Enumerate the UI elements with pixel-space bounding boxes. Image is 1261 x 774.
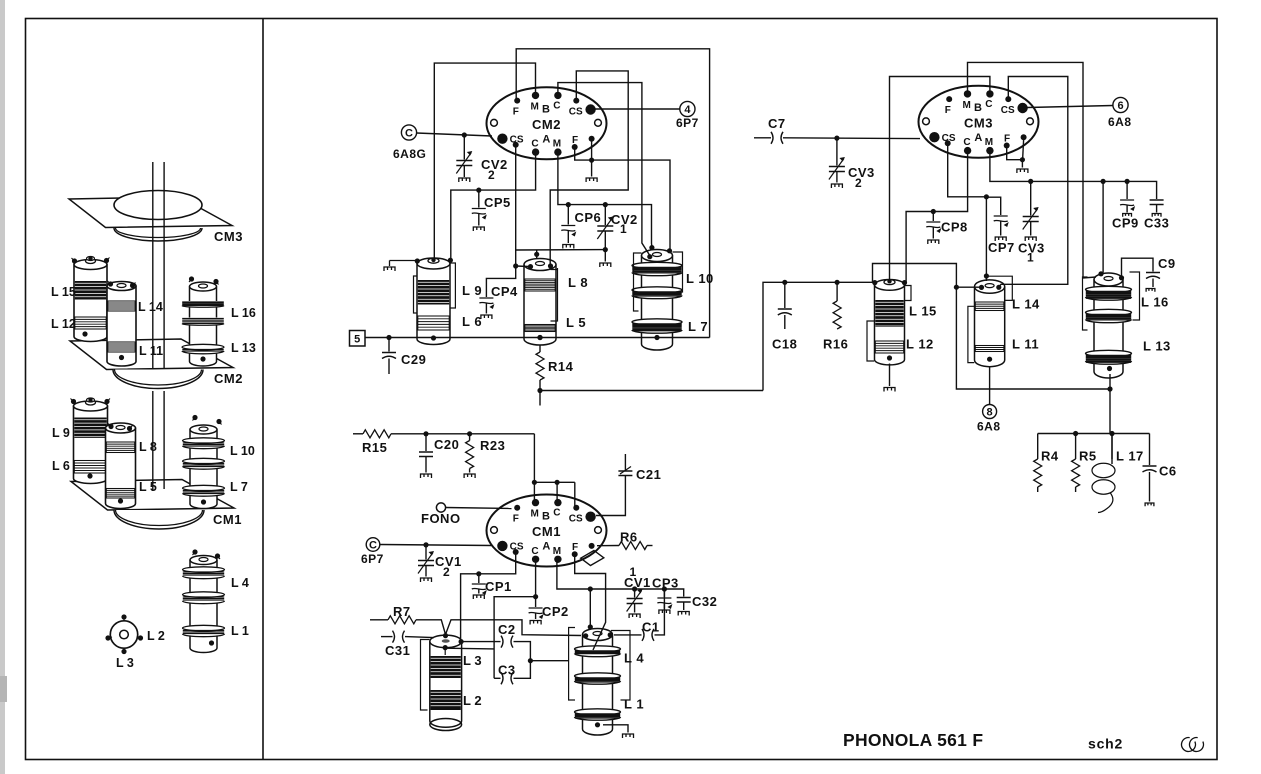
- svg-text:CM1: CM1: [532, 524, 561, 539]
- svg-text:CM1: CM1: [213, 512, 242, 527]
- svg-text:CP3: CP3: [652, 576, 679, 591]
- svg-text:F: F: [572, 135, 578, 146]
- svg-text:C32: C32: [692, 594, 717, 609]
- svg-text:L 15: L 15: [51, 285, 76, 299]
- svg-text:L 12: L 12: [906, 337, 934, 352]
- svg-text:L 9: L 9: [462, 283, 482, 298]
- svg-text:1: 1: [630, 565, 637, 579]
- svg-text:4: 4: [684, 104, 691, 116]
- svg-text:L 15: L 15: [909, 304, 937, 319]
- svg-text:L 13: L 13: [1143, 339, 1171, 354]
- svg-text:A: A: [974, 132, 982, 144]
- svg-text:C18: C18: [772, 337, 797, 352]
- svg-text:C33: C33: [1144, 216, 1169, 231]
- svg-text:L 5: L 5: [566, 315, 586, 330]
- svg-text:F: F: [513, 514, 519, 525]
- svg-text:CV1: CV1: [624, 575, 651, 590]
- svg-text:CS: CS: [942, 133, 956, 144]
- svg-text:C: C: [963, 137, 970, 148]
- svg-text:F: F: [513, 106, 519, 117]
- svg-text:CS: CS: [569, 514, 583, 525]
- svg-text:CM2: CM2: [532, 117, 561, 132]
- svg-text:L 8: L 8: [568, 275, 588, 290]
- svg-text:L 17: L 17: [1116, 449, 1144, 464]
- svg-text:L 4: L 4: [624, 651, 644, 666]
- svg-text:A: A: [542, 134, 550, 146]
- svg-text:L 4: L 4: [231, 576, 249, 590]
- svg-text:F: F: [945, 105, 951, 116]
- svg-text:C: C: [985, 99, 992, 110]
- svg-text:CS: CS: [1001, 105, 1015, 116]
- svg-text:5: 5: [354, 333, 360, 345]
- svg-text:M: M: [963, 100, 971, 111]
- svg-text:L 10: L 10: [230, 444, 255, 458]
- svg-text:C: C: [369, 539, 377, 551]
- svg-text:M: M: [531, 101, 539, 112]
- svg-text:B: B: [542, 511, 550, 523]
- svg-text:CS: CS: [510, 135, 524, 146]
- svg-text:CP5: CP5: [484, 195, 511, 210]
- svg-text:CP6: CP6: [575, 210, 602, 225]
- svg-text:CP2: CP2: [542, 604, 569, 619]
- svg-text:M: M: [985, 137, 993, 148]
- svg-text:L 2: L 2: [147, 629, 165, 643]
- svg-text:L 1: L 1: [231, 624, 249, 638]
- svg-text:R16: R16: [823, 337, 848, 352]
- svg-text:6P7: 6P7: [361, 552, 384, 566]
- svg-text:C: C: [531, 139, 538, 150]
- svg-text:C: C: [405, 127, 413, 139]
- svg-text:sch2: sch2: [1088, 736, 1123, 752]
- svg-text:B: B: [542, 104, 550, 116]
- svg-text:CS: CS: [510, 542, 524, 553]
- svg-text:L 16: L 16: [1141, 295, 1169, 310]
- svg-text:CP8: CP8: [941, 220, 968, 235]
- svg-text:L 11: L 11: [139, 344, 163, 358]
- svg-text:R23: R23: [480, 438, 505, 453]
- svg-text:B: B: [974, 102, 982, 114]
- svg-text:L 7: L 7: [688, 319, 708, 334]
- svg-text:2: 2: [443, 565, 450, 579]
- svg-text:R14: R14: [548, 359, 574, 374]
- svg-text:L 8: L 8: [139, 440, 157, 454]
- svg-text:R5: R5: [1079, 449, 1097, 464]
- svg-text:CP1: CP1: [485, 579, 512, 594]
- svg-text:C29: C29: [401, 352, 426, 367]
- svg-text:L 2: L 2: [463, 693, 482, 708]
- svg-text:F: F: [572, 542, 578, 553]
- svg-text:CP9: CP9: [1112, 216, 1139, 231]
- svg-text:2: 2: [488, 168, 495, 182]
- svg-text:C: C: [553, 100, 560, 111]
- svg-text:6A8G: 6A8G: [393, 147, 426, 161]
- svg-text:C20: C20: [434, 437, 459, 452]
- svg-text:C2: C2: [498, 622, 516, 637]
- svg-text:C: C: [531, 546, 538, 557]
- svg-text:CM3: CM3: [214, 229, 243, 244]
- svg-text:C21: C21: [636, 467, 661, 482]
- svg-text:L 7: L 7: [230, 480, 248, 494]
- svg-text:R7: R7: [393, 604, 411, 619]
- svg-text:PHONOLA 561 F: PHONOLA 561 F: [843, 730, 983, 750]
- svg-text:C: C: [553, 508, 560, 519]
- svg-text:L 16: L 16: [231, 306, 256, 320]
- svg-text:CM2: CM2: [214, 371, 243, 386]
- svg-text:1: 1: [620, 222, 627, 236]
- svg-text:F: F: [1004, 133, 1010, 144]
- svg-text:L 11: L 11: [1012, 337, 1039, 352]
- svg-text:6A8: 6A8: [977, 420, 1001, 434]
- svg-text:L 3: L 3: [116, 656, 134, 670]
- svg-text:L 6: L 6: [462, 314, 482, 329]
- svg-text:L 10: L 10: [686, 271, 714, 286]
- svg-text:L 12: L 12: [51, 317, 76, 331]
- svg-text:FONO: FONO: [421, 511, 461, 526]
- svg-text:C6: C6: [1159, 464, 1177, 479]
- svg-text:C9: C9: [1158, 256, 1176, 271]
- svg-text:L 3: L 3: [463, 653, 482, 668]
- svg-text:M: M: [531, 509, 539, 520]
- svg-text:R15: R15: [362, 440, 387, 455]
- svg-text:C1: C1: [642, 620, 660, 635]
- svg-text:6: 6: [1117, 100, 1123, 112]
- svg-text:L 13: L 13: [231, 341, 256, 355]
- svg-text:C31: C31: [385, 643, 410, 658]
- svg-text:CS: CS: [569, 106, 583, 117]
- svg-text:C7: C7: [768, 116, 786, 131]
- svg-text:8: 8: [987, 406, 993, 418]
- svg-text:CP7: CP7: [988, 240, 1015, 255]
- svg-text:1: 1: [1027, 251, 1034, 265]
- svg-text:R6: R6: [620, 530, 638, 545]
- svg-text:CP4: CP4: [491, 284, 518, 299]
- svg-text:R4: R4: [1041, 449, 1059, 464]
- svg-text:A: A: [542, 541, 550, 553]
- svg-text:L 14: L 14: [1012, 297, 1040, 312]
- svg-text:L 5: L 5: [139, 480, 157, 494]
- svg-text:C3: C3: [498, 663, 516, 678]
- svg-text:M: M: [553, 139, 561, 150]
- svg-text:L 9: L 9: [52, 426, 70, 440]
- svg-text:6P7: 6P7: [676, 116, 699, 130]
- svg-text:L 6: L 6: [52, 459, 70, 473]
- svg-text:L 14: L 14: [138, 300, 163, 314]
- svg-text:L 1: L 1: [624, 697, 644, 712]
- svg-text:6A8: 6A8: [1108, 115, 1132, 129]
- svg-text:2: 2: [855, 176, 862, 190]
- svg-text:CM3: CM3: [964, 115, 993, 130]
- svg-text:M: M: [553, 546, 561, 557]
